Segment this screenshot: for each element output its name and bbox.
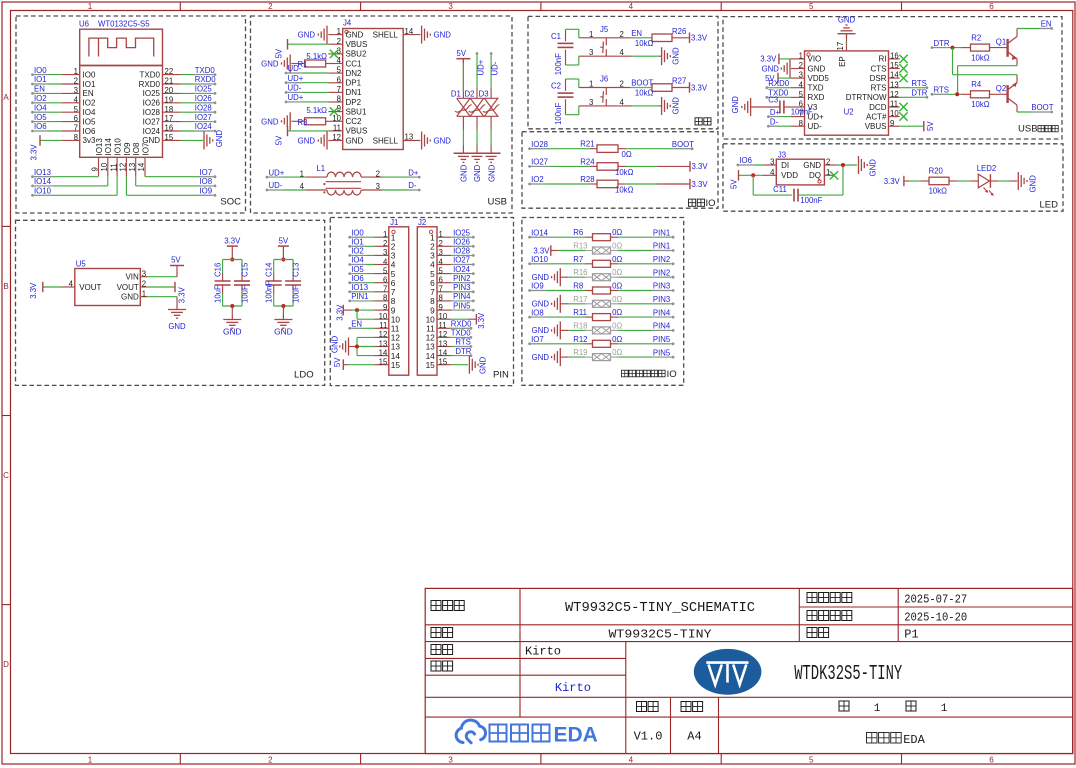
svg-text:1: 1 xyxy=(589,30,593,39)
junction bottom xyxy=(230,304,234,308)
svg-text:RXD0: RXD0 xyxy=(451,320,472,329)
wire net IO7 xyxy=(531,343,585,345)
svg-text:9: 9 xyxy=(383,303,387,312)
module region USB to serial (USB zhuanchuankou) xyxy=(723,17,1062,139)
svg-text:4: 4 xyxy=(629,2,634,11)
svg-text:DP2: DP2 xyxy=(346,98,362,107)
svg-text:6: 6 xyxy=(337,75,341,84)
U6 pin 10 IO14 xyxy=(107,157,109,176)
svg-text:11: 11 xyxy=(333,124,341,133)
U2 pin 14 DSR xyxy=(889,77,900,79)
svg-text:R2: R2 xyxy=(971,34,981,43)
U6 pin 4 IO2 xyxy=(61,102,79,104)
svg-text:R13: R13 xyxy=(573,242,587,251)
svg-text:IO5: IO5 xyxy=(83,117,96,126)
wire top rail xyxy=(274,259,293,261)
U2 pin 13 RTS xyxy=(889,87,900,89)
junction DTR xyxy=(951,46,955,50)
ground at R3 xyxy=(289,112,291,130)
ground at U6 pin 15 xyxy=(181,139,204,141)
svg-text:UD-: UD- xyxy=(288,84,302,93)
svg-text:GND: GND xyxy=(274,327,293,337)
svg-text:15: 15 xyxy=(890,61,899,70)
J3 pin 2 GND xyxy=(824,164,837,166)
J3 pin 4 VDD xyxy=(763,174,776,176)
svg-text:11: 11 xyxy=(890,100,898,109)
svg-text:Q2: Q2 xyxy=(996,84,1006,93)
svg-text:PIN3: PIN3 xyxy=(653,295,670,304)
svg-text:100nF: 100nF xyxy=(265,281,274,303)
wire net IO13 xyxy=(351,291,374,293)
svg-text:U2: U2 xyxy=(844,108,854,117)
wire net TXD0 at U2 RXD xyxy=(768,96,791,98)
svg-text:WTDK32S5-TINY: WTDK32S5-TINY xyxy=(794,663,902,686)
svg-text:14: 14 xyxy=(379,348,388,357)
resistor R27 10k xyxy=(652,84,672,92)
svg-text:15: 15 xyxy=(426,360,436,370)
svg-text:3: 3 xyxy=(142,269,146,278)
svg-text:3: 3 xyxy=(799,71,803,80)
svg-text:3: 3 xyxy=(376,182,380,191)
label banben (CJK) xyxy=(637,702,647,712)
ground at SHELL 14 xyxy=(421,26,423,44)
svg-text:GND: GND xyxy=(838,16,856,25)
svg-text:UD-: UD- xyxy=(269,181,283,190)
svg-text:IO6: IO6 xyxy=(34,122,47,131)
svg-text:3.3V: 3.3V xyxy=(691,83,708,92)
J4 pin 6 DP1 xyxy=(328,82,342,84)
module region boot IO (qidong IO) xyxy=(522,132,718,209)
svg-text:15: 15 xyxy=(379,358,388,367)
svg-text:IO8: IO8 xyxy=(132,142,141,155)
svg-text:EN: EN xyxy=(351,320,362,329)
svg-text:10kΩ: 10kΩ xyxy=(635,89,654,98)
svg-text:5: 5 xyxy=(809,2,814,11)
svg-text:4: 4 xyxy=(770,168,775,177)
J1 pin 7 xyxy=(375,291,389,293)
svg-text:PIN4: PIN4 xyxy=(653,308,671,317)
svg-text:13: 13 xyxy=(379,339,388,348)
svg-text:D3: D3 xyxy=(479,90,489,99)
ground under capacitor pair xyxy=(282,306,284,315)
L1 pin 2 wire net D+ xyxy=(361,176,382,178)
svg-text:2025-10-20: 2025-10-20 xyxy=(904,611,967,625)
svg-text:DCD: DCD xyxy=(869,103,887,112)
svg-text:12: 12 xyxy=(379,330,388,339)
svg-text:VDD5: VDD5 xyxy=(808,74,830,83)
svg-text:0Ω: 0Ω xyxy=(622,150,632,159)
svg-text:10: 10 xyxy=(439,312,448,321)
U6 pin 2 IO1 xyxy=(61,83,79,85)
wire net RTS to R4 xyxy=(934,93,961,95)
wire net PIN5 xyxy=(451,309,472,311)
J3 pin 3 DI xyxy=(763,164,776,166)
svg-text:1: 1 xyxy=(300,169,304,178)
svg-text:A: A xyxy=(3,93,9,102)
svg-text:7: 7 xyxy=(439,285,443,294)
svg-text:C2: C2 xyxy=(551,82,561,91)
svg-text:GND: GND xyxy=(672,47,681,65)
svg-text:GND: GND xyxy=(532,300,550,309)
wire net BOOT at Q2 xyxy=(1017,111,1050,113)
svg-text:10: 10 xyxy=(890,109,899,118)
svg-text:4: 4 xyxy=(74,95,79,104)
svg-text:12: 12 xyxy=(890,90,899,99)
svg-text:J2: J2 xyxy=(418,218,426,227)
svg-text:18: 18 xyxy=(165,105,174,114)
svg-text:UD+: UD+ xyxy=(269,168,285,177)
U2 pin 12 DTRTNOW xyxy=(889,96,900,98)
L1 pin 1 wire net UD+ xyxy=(306,176,327,178)
svg-text:GND: GND xyxy=(532,273,550,282)
svg-text:EDA: EDA xyxy=(903,733,925,747)
svg-text:GND: GND xyxy=(532,353,550,362)
U6 pin 11 IO10 xyxy=(116,157,118,176)
U6 pin 15 GND xyxy=(163,139,181,141)
svg-text:D+: D+ xyxy=(408,168,419,177)
svg-text:IO2: IO2 xyxy=(531,175,544,184)
svg-text:5V: 5V xyxy=(926,121,935,131)
J1 pin 8 xyxy=(375,300,389,302)
svg-text:2: 2 xyxy=(826,158,830,167)
svg-text:IO26: IO26 xyxy=(195,94,212,103)
svg-text:IO7: IO7 xyxy=(200,168,213,177)
J4 pin 8 DP2 xyxy=(328,101,342,103)
svg-text:RXD0: RXD0 xyxy=(768,79,789,88)
svg-text:3: 3 xyxy=(448,2,453,11)
wire net IO24 xyxy=(451,273,472,275)
svg-text:100nF: 100nF xyxy=(800,196,822,205)
svg-text:2: 2 xyxy=(142,280,146,289)
svg-text:VDD: VDD xyxy=(781,171,798,180)
J1 pin 5 xyxy=(375,273,389,275)
svg-text:C11: C11 xyxy=(773,185,787,194)
svg-text:IO7: IO7 xyxy=(531,335,544,344)
svg-text:5: 5 xyxy=(439,266,444,275)
svg-text:C16: C16 xyxy=(214,263,223,277)
svg-text:IO10: IO10 xyxy=(34,187,52,196)
U6 pin 7 IO6 xyxy=(61,130,79,132)
label anniu (CJK) xyxy=(695,118,702,125)
wire net UD- pin5 xyxy=(288,72,329,74)
U2 pin 9 VBUS xyxy=(889,125,900,127)
svg-text:14: 14 xyxy=(890,71,899,80)
svg-text:PIN4: PIN4 xyxy=(653,322,671,331)
svg-text:7: 7 xyxy=(74,124,78,133)
svg-text:9: 9 xyxy=(91,167,100,171)
svg-text:13: 13 xyxy=(890,80,899,89)
J1 pin 6 xyxy=(375,282,389,284)
U2 pin 6 V3 xyxy=(791,106,805,108)
U5 pin 3 VIN xyxy=(140,276,147,278)
svg-text:R18: R18 xyxy=(573,321,587,330)
J2 pin 6 xyxy=(437,282,451,284)
wire net PIN3 xyxy=(618,303,672,305)
svg-text:GND: GND xyxy=(803,161,821,170)
svg-text:IO4: IO4 xyxy=(34,103,47,112)
antenna meander of U6 xyxy=(89,38,154,56)
svg-text:4: 4 xyxy=(383,257,388,266)
wire net IO27 xyxy=(181,121,214,123)
J4 pin 3 SBU2 xyxy=(328,53,342,55)
svg-text:IO24: IO24 xyxy=(453,265,471,274)
svg-text:R4: R4 xyxy=(971,80,982,89)
svg-text:10kΩ: 10kΩ xyxy=(971,54,990,63)
junction at J3 VDD xyxy=(751,173,755,177)
wire bottom rail xyxy=(274,305,293,307)
power 5V at J1 pin 15 xyxy=(343,364,347,366)
wire net IO10 xyxy=(531,263,585,265)
svg-text:12: 12 xyxy=(119,163,128,172)
wire C2 bottom to J6 xyxy=(566,114,579,116)
svg-text:EN: EN xyxy=(1041,20,1052,29)
svg-text:VBUS: VBUS xyxy=(346,40,368,49)
wire LED2 to ground xyxy=(990,180,998,182)
J1 pin 14 xyxy=(375,355,389,357)
svg-text:3.3V: 3.3V xyxy=(336,304,345,321)
svg-text:C13: C13 xyxy=(292,263,301,277)
svg-text:5: 5 xyxy=(383,266,388,275)
ground at C3 xyxy=(750,98,752,116)
wire net DTR xyxy=(451,355,469,357)
svg-text:GND: GND xyxy=(762,65,780,74)
svg-text:PIN1: PIN1 xyxy=(351,292,368,301)
svg-text:5V: 5V xyxy=(275,135,284,145)
svg-text:10: 10 xyxy=(100,162,109,171)
svg-text:10uF: 10uF xyxy=(292,285,301,303)
wire net PIN4 xyxy=(618,316,672,318)
svg-text:0Ω: 0Ω xyxy=(612,321,622,330)
svg-text:3.3V: 3.3V xyxy=(884,177,901,186)
svg-text:PIN2: PIN2 xyxy=(453,274,470,283)
svg-text:8: 8 xyxy=(439,294,443,303)
J1 pin 9 xyxy=(375,309,389,311)
svg-text:1: 1 xyxy=(589,80,593,89)
svg-text:0Ω: 0Ω xyxy=(612,295,622,304)
U2 pin 5 RXD xyxy=(791,96,805,98)
svg-text:0Ω: 0Ω xyxy=(612,308,622,317)
wire D1 bottom to ground xyxy=(462,116,464,130)
wire D2 bottom to ground xyxy=(476,116,478,130)
svg-text:Q1: Q1 xyxy=(996,38,1006,47)
wire net PIN3 xyxy=(618,290,672,292)
power 3.3V at R27 xyxy=(672,87,690,89)
capacitor C13 10uF xyxy=(292,260,294,274)
svg-text:TXD: TXD xyxy=(808,84,824,93)
U2 pin 10 ACT# xyxy=(889,116,900,118)
U6 pin 3 EN xyxy=(61,92,79,94)
svg-text:IO27: IO27 xyxy=(453,256,470,265)
J2 pin 1 xyxy=(437,236,451,238)
label gengxinriqi (CJK) xyxy=(807,611,817,621)
svg-text:2: 2 xyxy=(620,80,624,89)
svg-text:IO5: IO5 xyxy=(351,265,364,274)
wire net IO24 xyxy=(181,130,214,132)
label qidongIO (CJK+IO) xyxy=(689,199,696,206)
svg-text:R6: R6 xyxy=(573,228,583,237)
svg-text:U5: U5 xyxy=(76,260,87,269)
wire net IO14 xyxy=(107,176,109,186)
svg-text:8: 8 xyxy=(74,133,78,142)
svg-text:12: 12 xyxy=(439,330,448,339)
svg-text:3: 3 xyxy=(589,98,593,107)
svg-text:IO2: IO2 xyxy=(34,94,47,103)
svg-text:LED2: LED2 xyxy=(977,164,997,173)
svg-text:ACT#: ACT# xyxy=(866,112,887,121)
svg-text:SHELL: SHELL xyxy=(373,30,399,39)
ground at J3 xyxy=(858,156,860,174)
svg-text:PIN: PIN xyxy=(493,370,509,381)
U6 pin 19 IO26 xyxy=(163,102,181,104)
resistor R26 10k xyxy=(652,34,672,42)
svg-text:4: 4 xyxy=(629,756,634,765)
svg-text:5: 5 xyxy=(799,90,804,99)
svg-text:J4: J4 xyxy=(343,19,352,28)
wire net UD+ pin8 xyxy=(288,101,329,103)
J1 pin 11 xyxy=(375,327,389,329)
svg-text:2: 2 xyxy=(268,2,273,11)
U6 pin 6 IO5 xyxy=(61,121,79,123)
svg-text:R19: R19 xyxy=(573,348,587,357)
wire VDD to C11 xyxy=(752,175,754,195)
wire net PIN4 xyxy=(618,329,672,331)
J4 pin 10 CC2 xyxy=(328,120,342,122)
wire net IO13 xyxy=(34,176,99,178)
svg-text:3.3V: 3.3V xyxy=(533,246,550,255)
wire net IO28 xyxy=(451,254,472,256)
svg-text:DSR: DSR xyxy=(870,74,887,83)
ground at J4 pin 12 xyxy=(326,132,328,150)
U6 pin 5 IO4 xyxy=(61,111,79,113)
svg-text:5V: 5V xyxy=(333,357,342,367)
U6 pin 22 TXD0 xyxy=(163,74,181,76)
wire net UD+ above D2 xyxy=(476,88,478,98)
wire net IO25 xyxy=(451,236,472,238)
svg-text:15: 15 xyxy=(391,360,401,370)
svg-text:IO0: IO0 xyxy=(351,228,364,237)
wire net IO0 xyxy=(34,74,61,76)
svg-text:GND: GND xyxy=(532,326,550,335)
module region LED xyxy=(723,144,1063,211)
svg-text:R3: R3 xyxy=(298,118,308,127)
wire net PIN2 xyxy=(618,263,672,265)
wire net IO9 xyxy=(125,176,127,195)
svg-text:GND: GND xyxy=(261,60,279,69)
svg-text:UD-: UD- xyxy=(288,64,302,73)
J4 pin 12 GND xyxy=(328,140,342,142)
label ye (CJK) page numbers xyxy=(839,701,849,711)
power 5V at J3 xyxy=(739,174,764,176)
svg-text:PIN2: PIN2 xyxy=(653,255,670,264)
J4 pin 5 DN2 xyxy=(328,72,342,74)
junction top xyxy=(281,258,285,262)
svg-text:3.3V: 3.3V xyxy=(30,144,39,161)
svg-text:15: 15 xyxy=(439,358,448,367)
svg-text:14: 14 xyxy=(137,162,146,171)
svg-text:RXD0: RXD0 xyxy=(139,80,161,89)
svg-text:22: 22 xyxy=(165,67,174,76)
svg-text:PIN5: PIN5 xyxy=(653,348,671,357)
U6 pin 18 IO28 xyxy=(163,111,181,113)
ground at LED2 xyxy=(1017,172,1019,190)
svg-text:GND: GND xyxy=(808,64,826,73)
svg-text:10kΩ: 10kΩ xyxy=(635,39,654,48)
svg-text:R28: R28 xyxy=(580,175,594,184)
wire net IO26 xyxy=(451,245,472,247)
U6 pin 8 3v3 xyxy=(61,139,79,141)
svg-text:VIO: VIO xyxy=(808,55,822,64)
power 5V at U2 pin 3 VDD5 xyxy=(778,77,791,79)
svg-text:GND: GND xyxy=(346,136,364,145)
wire net IO28 xyxy=(531,148,590,150)
label huizhi (CJK) xyxy=(431,645,441,655)
wire net DTR at U2 pin 12 xyxy=(900,96,926,98)
svg-text:5V: 5V xyxy=(730,179,739,189)
svg-text:IO: IO xyxy=(706,198,716,209)
svg-text:DI: DI xyxy=(781,161,789,170)
power 5V above D1 xyxy=(462,59,464,99)
svg-text:10kΩ: 10kΩ xyxy=(971,100,990,109)
wire bottom rail xyxy=(223,305,242,307)
module region SOC xyxy=(16,16,246,213)
svg-text:GND: GND xyxy=(672,97,681,115)
J2 pin 5 xyxy=(437,273,451,275)
svg-text:IO0: IO0 xyxy=(34,66,47,75)
J2 pin 14 xyxy=(437,355,451,357)
svg-text:3: 3 xyxy=(589,48,593,57)
wire net IO8 xyxy=(135,176,137,186)
wire net PIN2 xyxy=(451,282,472,284)
svg-text:3.3V: 3.3V xyxy=(691,34,708,43)
ground at U2 pin 2 xyxy=(789,60,791,78)
U2 pin 11 DCD xyxy=(889,106,900,108)
svg-text:DTR: DTR xyxy=(934,39,950,48)
wire net PIN1 xyxy=(618,250,672,252)
svg-text:IO5: IO5 xyxy=(34,113,47,122)
wire net EN at J1 pin 11 xyxy=(351,327,374,329)
svg-text:IO24: IO24 xyxy=(143,127,161,136)
svg-text:IO25: IO25 xyxy=(453,228,471,237)
svg-text:TXD0: TXD0 xyxy=(451,329,472,338)
svg-text:5.1kΩ: 5.1kΩ xyxy=(306,52,327,61)
U6 pin 16 IO24 xyxy=(163,130,181,132)
wire net IO27 xyxy=(531,165,590,167)
U6 pin 14 IO7 xyxy=(144,157,146,176)
wire net IO10 xyxy=(116,176,118,195)
svg-text:GND: GND xyxy=(298,31,316,40)
svg-text:TXD0: TXD0 xyxy=(195,66,216,75)
svg-text:13: 13 xyxy=(128,163,137,172)
wire net BOOT xyxy=(634,87,653,89)
wire net EN xyxy=(34,92,61,94)
U6 pin 17 IO27 xyxy=(163,121,181,123)
svg-text:V1.0: V1.0 xyxy=(634,730,663,744)
label chuangjianriqi (CJK) xyxy=(807,593,817,603)
wire DTR junction to Q2 collector xyxy=(952,48,954,75)
svg-text:5V: 5V xyxy=(171,256,181,265)
svg-text:J5: J5 xyxy=(600,25,609,34)
J4 pin 9 SBU1 xyxy=(328,111,342,113)
svg-text:3: 3 xyxy=(383,248,387,257)
svg-text:VOUT: VOUT xyxy=(117,283,139,292)
wire net IO1 xyxy=(351,245,374,247)
svg-text:IO28: IO28 xyxy=(531,140,548,149)
svg-text:3.3V: 3.3V xyxy=(760,55,777,64)
svg-text:DN1: DN1 xyxy=(346,88,363,97)
svg-text:1: 1 xyxy=(88,756,93,765)
svg-text:IO2: IO2 xyxy=(83,99,96,108)
svg-text:3: 3 xyxy=(448,756,453,765)
